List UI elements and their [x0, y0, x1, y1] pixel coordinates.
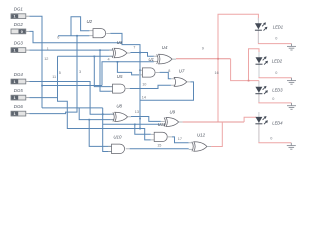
svg-text:15: 15 — [157, 144, 161, 148]
wire net9 U4 output red — [176, 58, 231, 60]
led LED1 — [255, 18, 283, 43]
wire LED3 cathode to ground — [259, 94, 292, 103]
svg-text:13: 13 — [135, 110, 139, 114]
wire U12 output red up — [211, 122, 222, 147]
svg-text:U3: U3 — [117, 40, 123, 45]
svg-text:U11: U11 — [158, 122, 166, 127]
wire net1 branch y85.5 — [42, 85, 102, 87]
svg-text:8: 8 — [168, 69, 170, 73]
wire net6 DG6 riser x77 — [76, 36, 78, 112]
svg-text:U9: U9 — [170, 110, 176, 115]
wire U1 output net8 to U7 upper — [160, 72, 171, 78]
svg-text:1: 1 — [47, 47, 49, 51]
and-gate U5 — [110, 84, 130, 93]
svg-text:LED2: LED2 — [272, 58, 283, 63]
digital constant DG1 — [11, 7, 30, 19]
wire DG5 path — [30, 56, 141, 128]
xor-gate U3 — [109, 48, 130, 58]
svg-text:1: 1 — [14, 49, 16, 53]
digital constant DG3 — [11, 41, 30, 53]
svg-text:12: 12 — [44, 57, 48, 61]
wire U5 output net10 to U7 lower — [130, 85, 171, 88]
wire net6 DG2 run — [30, 31, 123, 42]
svg-text:U7: U7 — [179, 68, 185, 73]
wire U2 bottom input net6 — [58, 35, 89, 37]
wire U3 output net7 vertical bus — [130, 53, 140, 129]
junction dot net16 red — [217, 58, 249, 82]
svg-text:DG2: DG2 — [14, 22, 24, 27]
wire net7 to U4 inputs — [140, 53, 154, 57]
svg-text:0: 0 — [270, 136, 272, 140]
svg-text:6: 6 — [57, 36, 59, 40]
led LED4 — [255, 112, 283, 142]
wire U2 top detour — [71, 17, 89, 36]
svg-text:DG3: DG3 — [14, 41, 24, 46]
svg-text:10: 10 — [142, 82, 146, 86]
svg-text:DG6: DG6 — [14, 104, 24, 109]
digital constant DG6 — [11, 104, 30, 116]
svg-text:DG1: DG1 — [14, 7, 24, 12]
wire to U4 lower input — [102, 62, 154, 86]
wire DG4 down x89.7 to U8 lower — [30, 82, 114, 115]
svg-text:0: 0 — [275, 71, 277, 75]
svg-text:U1: U1 — [148, 57, 154, 62]
wire net16 long vertical — [217, 59, 219, 122]
svg-text:14: 14 — [142, 96, 146, 100]
wire up to LED4 — [244, 117, 256, 122]
wire LED4 cathode to ground — [259, 125, 291, 143]
wire net1 DG1 to bus — [30, 16, 43, 108]
svg-text:DG5: DG5 — [14, 88, 24, 93]
wire y107.9 from bus to x89.7 — [42, 108, 114, 120]
svg-text:0: 0 — [275, 37, 277, 41]
svg-text:9: 9 — [202, 46, 204, 50]
svg-text:U10: U10 — [113, 135, 122, 140]
wire U8 output net13 to U9 upper — [131, 117, 161, 122]
ground GND1 — [287, 44, 296, 50]
wire x89.7 branch to U10 upper — [89, 120, 111, 147]
wire U7 output net14 going left — [140, 82, 194, 100]
svg-text:3: 3 — [79, 70, 81, 74]
wire to U9 lower input — [103, 123, 161, 125]
wire net9 up to LED1 — [218, 14, 258, 59]
wire net1 DG3 to U3 — [30, 49, 113, 51]
wire U9 output net across bottom — [183, 121, 245, 123]
wire LED1 cathode to ground — [258, 32, 291, 44]
svg-text:11: 11 — [52, 75, 56, 79]
svg-text:16: 16 — [215, 71, 219, 75]
svg-text:1: 1 — [14, 15, 16, 19]
wire U10 output to U12 lower — [130, 148, 189, 150]
xor-gate U9 — [161, 118, 183, 127]
svg-text:1: 1 — [14, 96, 16, 100]
digital constant DG4 — [11, 72, 30, 84]
svg-text:5: 5 — [59, 71, 61, 75]
svg-text:U2: U2 — [87, 19, 93, 24]
and-gate U1 — [139, 68, 160, 77]
and-gate U10 — [108, 144, 130, 153]
or-gate U7 — [171, 77, 190, 86]
svg-text:LED3: LED3 — [272, 87, 283, 92]
wire branch x93.3 to U5 upper — [94, 56, 113, 86]
led LED2 — [256, 52, 283, 77]
ground GND4 — [287, 143, 296, 149]
ground GND3 — [287, 103, 296, 109]
wire branch x134.8 to U11 upper — [135, 124, 151, 134]
wire to LED2 path — [231, 49, 259, 81]
wire branch to U1 lower input — [117, 62, 139, 75]
xor-gate U4 — [153, 54, 176, 64]
svg-text:17: 17 — [178, 137, 182, 141]
wire U1 upper input tap — [139, 69, 140, 71]
svg-text:1: 1 — [14, 112, 16, 116]
led LED3 — [255, 81, 283, 102]
svg-text:U12: U12 — [197, 132, 206, 137]
svg-text:LED4: LED4 — [272, 120, 283, 125]
junction dots (blue) — [41, 35, 141, 129]
wire branch to U11 lower — [140, 129, 151, 140]
digital constant DG2 — [11, 22, 30, 34]
svg-text:U8: U8 — [116, 104, 122, 109]
wire branch x102.7 to U10 lower — [103, 108, 112, 152]
xor-gate U8 — [110, 112, 131, 121]
xor-gate U12 — [189, 142, 211, 152]
svg-text:DG4: DG4 — [14, 72, 24, 77]
svg-text:LED1: LED1 — [273, 24, 283, 29]
svg-text:U4: U4 — [162, 45, 168, 50]
and-gate U11 — [151, 132, 172, 141]
and-gate U2 — [89, 29, 110, 38]
svg-text:0: 0 — [21, 30, 23, 34]
wire DG6 to U9 lower input — [30, 112, 78, 114]
wire LED2 cathode to ground — [259, 65, 292, 78]
wire U11 output net17 to U12 upper — [172, 137, 189, 143]
wire DG3 branch down to U5 — [100, 50, 113, 91]
digital constant DG5 — [11, 88, 30, 100]
wire U2 output — [110, 33, 140, 52]
ground GND2 — [287, 78, 296, 84]
svg-text:U5: U5 — [117, 74, 123, 79]
wire net into U3 lower input — [58, 55, 113, 57]
svg-text:0: 0 — [272, 97, 274, 101]
svg-text:1: 1 — [14, 80, 16, 84]
svg-text:4: 4 — [108, 57, 110, 61]
wire to LED3 top — [258, 81, 260, 84]
svg-text:7: 7 — [133, 45, 135, 49]
